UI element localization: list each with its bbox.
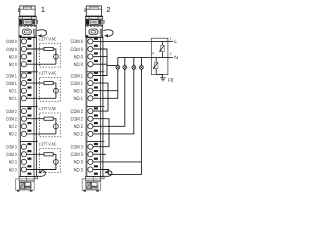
module 2 housing side edges [85, 37, 103, 176]
wire lamp to NO 0 [26, 63, 56, 65]
wire NO 0 stub [93, 56, 107, 58]
module 1 contact mark at strip bottom [27, 173, 31, 175]
svg-text:COM 0: COM 0 [71, 47, 84, 53]
module 1 screw terminals group 2 [21, 109, 26, 137]
module 2 screw terminals group 2 [88, 109, 93, 137]
svg-text:NO 2: NO 2 [9, 132, 17, 137]
module 2 screw terminals group 1 [88, 73, 93, 101]
module 1 housing side edges [19, 37, 37, 176]
svg-text:NO 0: NO 0 [9, 62, 17, 67]
svg-text:NO 1: NO 1 [9, 96, 17, 101]
socket riser 2 dropping to NO 2 [93, 58, 125, 127]
svg-text:NO 3: NO 3 [74, 167, 83, 173]
module 1 contact marks group 0 [27, 38, 31, 63]
module 2 screw terminals group 0 [88, 39, 93, 67]
earth ground symbol FE [160, 78, 165, 81]
wire lamp to NO 2 [26, 133, 56, 135]
svg-text:COM 3: COM 3 [71, 152, 84, 158]
lamp load channel 3 [54, 160, 59, 165]
module 1 head wire entry arrow [37, 30, 47, 38]
svg-text:COM 2: COM 2 [71, 117, 84, 123]
module 1 screw terminals group 1 [21, 73, 26, 101]
module 1 contact marks group 1 [27, 72, 31, 97]
svg-text:NO 1: NO 1 [74, 89, 83, 95]
svg-text:COM 1: COM 1 [6, 73, 17, 78]
wire COM 3 stub [93, 153, 106, 155]
svg-text:COM 1: COM 1 [6, 81, 17, 86]
module 1 bus connector head [18, 6, 37, 37]
svg-text:NO 3: NO 3 [74, 160, 83, 166]
svg-text:COM 1: COM 1 [71, 81, 84, 87]
svg-text:COM 0: COM 0 [6, 47, 17, 52]
svg-text:NO 1: NO 1 [74, 96, 83, 102]
arrester element L-N [159, 41, 164, 57]
svg-text:COM 3: COM 3 [6, 152, 17, 157]
wire COM 2 chain to COM 3 [93, 119, 109, 147]
terminal stub N [168, 57, 173, 59]
fuse channel 3 [44, 153, 53, 156]
wire NO 3 stub to riser 4 [93, 161, 141, 163]
svg-text:≤ 277 V AC: ≤ 277 V AC [39, 142, 57, 147]
svg-text:COM 3: COM 3 [6, 145, 17, 150]
plug socket symbols [116, 64, 143, 71]
dashed load box channel 0 [40, 43, 61, 67]
lamp load channel 2 [54, 124, 59, 129]
svg-text:1: 1 [170, 37, 172, 41]
module 2 head wire entry arrow [103, 30, 113, 38]
svg-text:1: 1 [41, 5, 45, 14]
module 2 contact marks group 2 [94, 107, 98, 132]
svg-text:NO 2: NO 2 [74, 132, 83, 138]
module 1 contact marks group 3 [27, 143, 31, 168]
wire COM 0 to fuse [26, 48, 44, 50]
module 1 group divider lines [20, 37, 38, 176]
svg-text:4: 4 [152, 52, 154, 56]
wire COM 1 to fuse [26, 82, 44, 84]
module 2 base foot [82, 176, 104, 191]
wire fuse to lamp channel 2 [53, 119, 56, 134]
svg-text:COM 2: COM 2 [71, 109, 84, 115]
module 2 contact marks group 3 [94, 143, 98, 168]
wire neutral N line [118, 57, 168, 59]
svg-text:NO 0: NO 0 [9, 54, 17, 59]
svg-text:COM 0: COM 0 [6, 39, 17, 44]
fuse channel 1 [44, 82, 53, 85]
svg-text:NO 3: NO 3 [9, 160, 17, 165]
arrester element N-FE [153, 58, 162, 78]
lamp load channel 0 [54, 54, 59, 59]
svg-text:2: 2 [106, 5, 110, 14]
wire COM 2 to fuse [26, 118, 44, 120]
svg-text:COM 1: COM 1 [71, 73, 84, 79]
socket riser 1 dropping to NO 1 [93, 58, 118, 99]
dashed load box channel 3 [40, 149, 61, 173]
svg-text:≤ 277 V AC: ≤ 277 V AC [39, 106, 57, 111]
svg-text:NO 0: NO 0 [74, 54, 83, 60]
socket riser 4 return to NO 3 second [93, 58, 141, 175]
svg-text:COM 3: COM 3 [71, 145, 84, 151]
svg-text:N: N [174, 55, 178, 61]
module 2 contact marks group 1 [94, 72, 98, 97]
wire fuse to lamp channel 1 [53, 83, 56, 98]
module 2 terminal labels [71, 39, 84, 173]
lamp load channel 1 [54, 88, 59, 93]
wire NO 0 second stub [93, 63, 107, 65]
wire link chain to socket 1 [107, 64, 118, 65]
svg-text:FE: FE [168, 77, 174, 82]
svg-text:NO 2: NO 2 [9, 124, 17, 129]
wire NO 1 stub to riser 1 [93, 90, 118, 92]
fuse channel 0 [44, 47, 53, 50]
module 1 base foot [16, 176, 38, 191]
module 1 contact marks group 2 [27, 107, 31, 132]
module 2 contact marks group 0 [94, 38, 98, 63]
svg-text:NO 0: NO 0 [74, 62, 83, 68]
dashed load box channel 2 [40, 113, 61, 137]
svg-text:NO 2: NO 2 [74, 124, 83, 130]
wire COM 1 chain to COM 2 [93, 83, 108, 111]
wire COM 3 to fuse [26, 153, 44, 155]
module 2 bus connector head [85, 6, 104, 37]
module 1 terminal labels [6, 39, 17, 172]
svg-text:NO 1: NO 1 [9, 89, 17, 94]
module 2 contact mark at strip bottom [94, 173, 98, 175]
wire COM 0 chain to COM 1 [93, 49, 107, 76]
svg-text:2: 2 [170, 52, 172, 56]
surge arrester box [151, 38, 168, 74]
svg-text:≤ 277 V AC: ≤ 277 V AC [39, 71, 57, 76]
svg-text:L: L [174, 39, 177, 45]
svg-text:≤ 277 V AC: ≤ 277 V AC [39, 36, 57, 41]
wire phase L from COM 0 to arrester [93, 40, 168, 42]
fuse channel 2 [44, 117, 53, 120]
module 1 screw terminals group 0 [21, 39, 26, 67]
module 1 screw terminals group 3 [21, 144, 26, 172]
wire fuse to lamp channel 3 [53, 154, 56, 169]
svg-text:COM 0: COM 0 [71, 39, 84, 45]
svg-text:COM 2: COM 2 [6, 117, 17, 122]
module 2 foot wire entry arrow [103, 171, 112, 177]
wire lamp to NO 1 [26, 97, 56, 99]
module 1 foot wire entry arrow [37, 171, 46, 177]
dashed load box channel 1 [40, 77, 61, 101]
wire fuse to lamp channel 0 [53, 49, 56, 64]
wire lamp to NO 3 [26, 169, 56, 171]
svg-text:NO 3: NO 3 [9, 167, 17, 172]
svg-text:COM 2: COM 2 [6, 109, 17, 114]
module 2 group divider lines [87, 37, 105, 176]
socket riser 3 dropping to NO 2 second [93, 58, 134, 134]
module 2 screw terminals group 3 [88, 144, 93, 172]
terminal stub L [168, 40, 173, 42]
